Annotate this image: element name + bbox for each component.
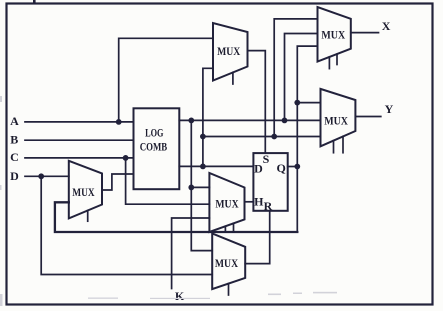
mux X select tick 2 — [336, 54, 338, 64]
mux U2 (top) — [213, 23, 248, 81]
svg-text:LOG: LOG — [145, 125, 163, 139]
svg-text:MUX: MUX — [72, 185, 95, 199]
wire D input — [25, 175, 69, 177]
mux U5 select tick — [228, 284, 230, 295]
wire K to U4 input3 — [172, 218, 210, 289]
wire U5 output to FF R — [245, 211, 270, 264]
wire U2 output to FF S — [248, 51, 266, 154]
node D-branch — [38, 173, 44, 179]
node Q — [294, 164, 300, 170]
wire LOG COMB outD row to FF D — [179, 165, 253, 167]
node Xin2-branch — [282, 118, 288, 124]
faint scan smudges bottom — [0, 96, 337, 306]
svg-text:Y: Y — [385, 102, 394, 116]
wire C branch to U4 input2 — [126, 158, 210, 204]
wire Y output — [355, 116, 380, 118]
wire A input — [25, 121, 134, 123]
wire A to U2 input1 — [119, 38, 213, 122]
mux Y select tick 1 — [333, 141, 335, 153]
node row137-start — [200, 134, 206, 140]
svg-text:MUX: MUX — [217, 44, 240, 58]
LOG COMB block — [134, 108, 180, 189]
flip-flop U6 box — [253, 153, 287, 211]
node Q-Yin1 — [294, 100, 300, 106]
svg-text:D: D — [254, 162, 263, 176]
mux U3 select tick — [87, 211, 89, 222]
svg-text:R: R — [264, 199, 273, 213]
wire C input — [25, 157, 134, 159]
svg-text:COMB: COMB — [140, 139, 168, 153]
svg-text:MUX: MUX — [215, 196, 238, 210]
mux X select tick 1 — [328, 57, 330, 69]
stray scan mark top edge — [33, 0, 36, 4]
mux Y select tick 2 — [342, 136, 344, 152]
svg-text:H: H — [254, 195, 264, 209]
svg-text:B: B — [10, 132, 18, 146]
node Xin1-branch — [271, 134, 277, 140]
wire Y input1 — [297, 102, 320, 104]
wire FF Q to node — [288, 166, 298, 168]
node out1-U4 — [188, 185, 194, 191]
wire feedback row (Q to U4 selects and U3 input2) — [55, 202, 297, 232]
mux U4 select tick 1 — [224, 226, 226, 232]
mux U4 (center upper) — [209, 173, 244, 232]
svg-text:Q: Q — [277, 161, 286, 175]
mux U2 select tick — [232, 72, 234, 84]
node outD-branch — [200, 164, 206, 170]
wire X output — [351, 32, 379, 34]
wire X input2 — [285, 34, 318, 121]
svg-text:A: A — [10, 114, 19, 128]
mux Y (right) — [321, 89, 356, 146]
svg-text:MUX: MUX — [215, 256, 238, 270]
svg-text:X: X — [382, 19, 391, 33]
mux U4 select tick 2 — [233, 223, 235, 232]
node out1-branch — [188, 118, 194, 124]
wire B input — [25, 139, 134, 141]
svg-text:S: S — [263, 152, 270, 166]
wire U4 output to FF H — [245, 201, 254, 203]
svg-text:K: K — [175, 289, 185, 303]
wire row137 to Y input3 — [203, 136, 321, 138]
node A-branch — [116, 119, 122, 125]
wire X input1 — [274, 19, 317, 137]
node C-branch — [123, 155, 129, 161]
wire outD up to U2 input2 — [203, 68, 213, 166]
wire out1 down branch to U5 input1 — [191, 120, 212, 250]
mux X (top right) — [318, 7, 351, 62]
mux U3 (left) — [69, 161, 102, 219]
wire Q down to feedback row — [296, 167, 298, 233]
svg-text:D: D — [10, 169, 19, 183]
mux U5 (center lower) — [212, 234, 245, 290]
svg-text:MUX: MUX — [324, 114, 348, 128]
wire to U4 input1 — [191, 186, 209, 188]
wire Q up to X input3 — [297, 46, 317, 166]
svg-text:C: C — [10, 150, 19, 164]
wire D branch to U5 input2 — [41, 176, 212, 274]
wire LOG COMB out1 row — [179, 119, 320, 121]
wire U3 output to LOG COMB — [102, 174, 134, 190]
svg-text:MUX: MUX — [321, 28, 345, 42]
